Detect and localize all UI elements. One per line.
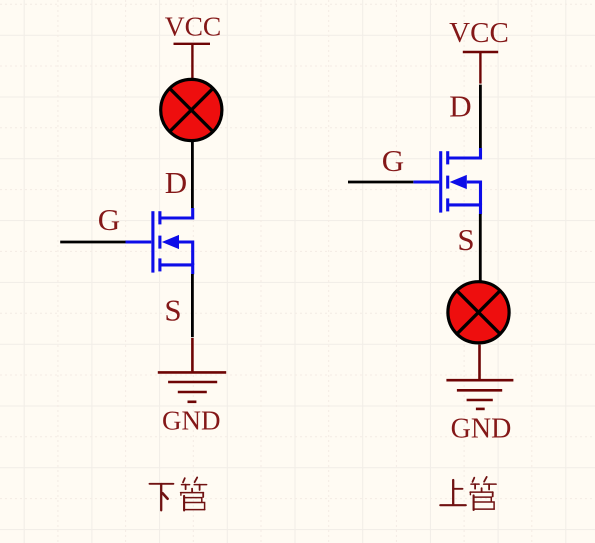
svg-text:GND: GND bbox=[451, 414, 512, 445]
svg-text:S: S bbox=[164, 293, 181, 328]
svg-text:G: G bbox=[98, 202, 120, 237]
svg-text:VCC: VCC bbox=[165, 10, 222, 41]
svg-text:S: S bbox=[457, 222, 474, 257]
svg-text:VCC: VCC bbox=[449, 17, 509, 49]
svg-text:D: D bbox=[449, 89, 471, 124]
svg-text:GND: GND bbox=[162, 406, 221, 436]
svg-text:D: D bbox=[165, 165, 187, 200]
svg-text:G: G bbox=[382, 143, 404, 178]
